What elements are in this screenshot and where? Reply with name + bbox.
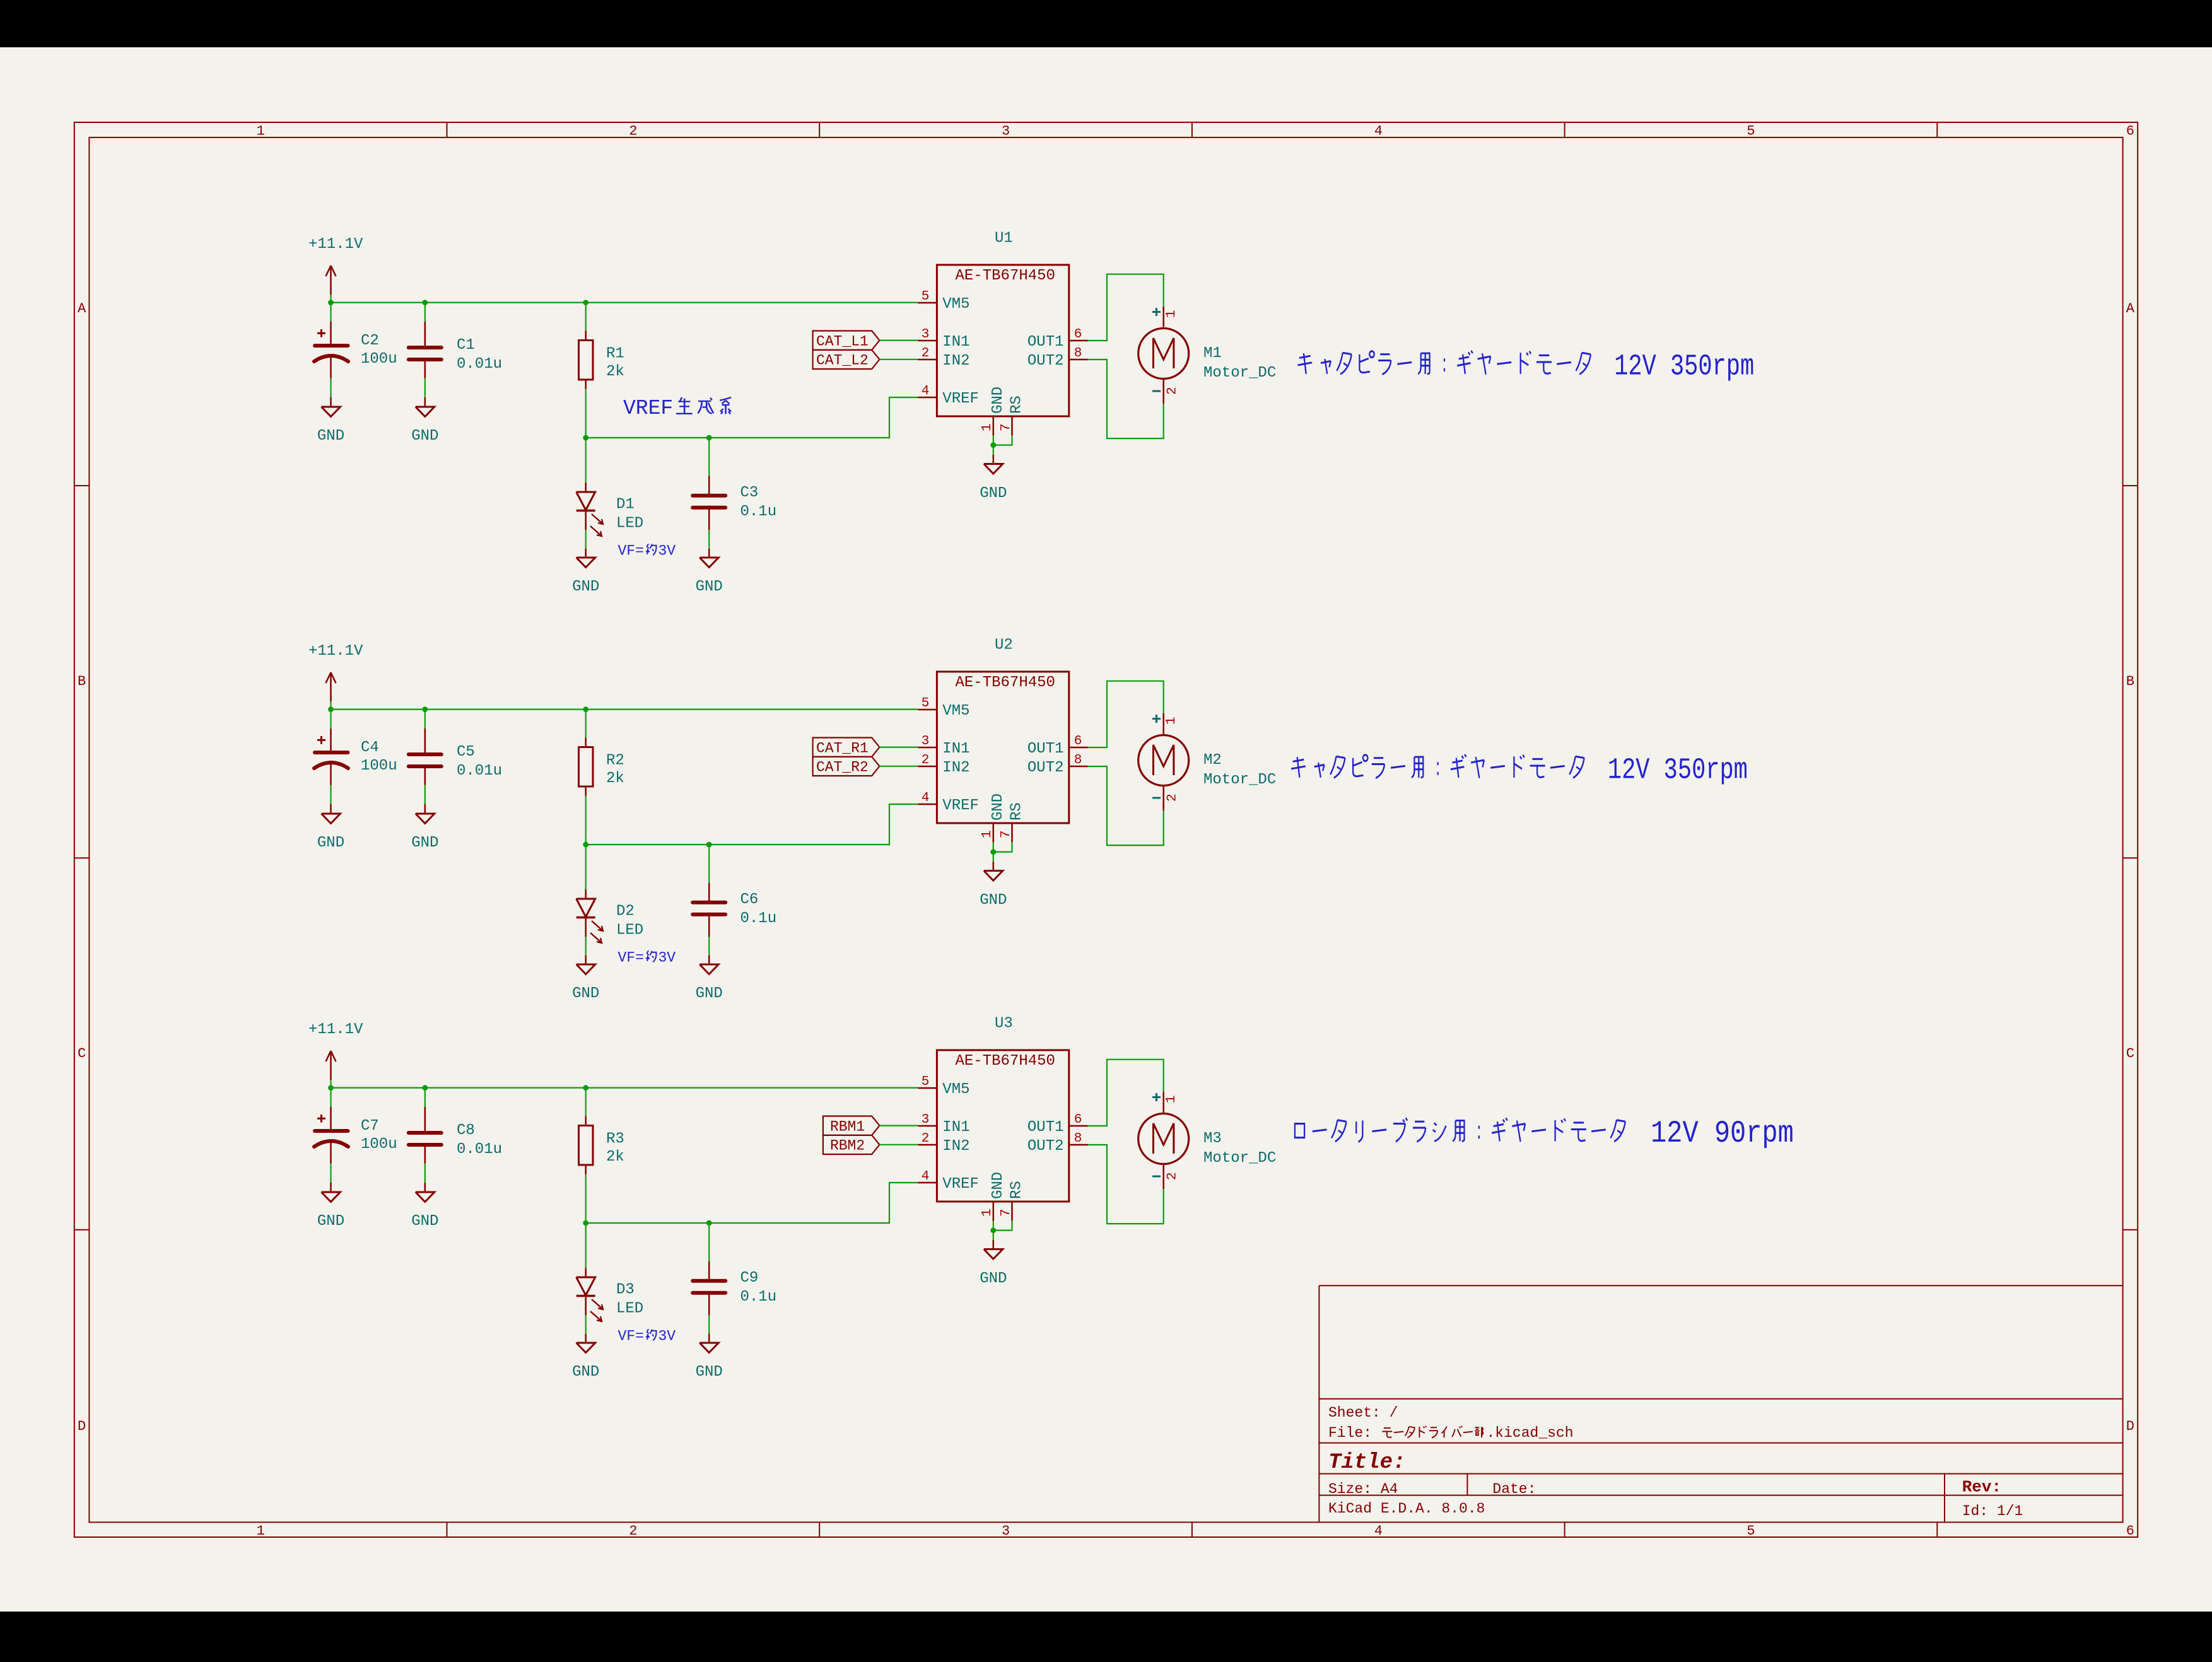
svg-text:D1: D1	[616, 496, 635, 513]
capacitor C5 (0.01u)	[424, 710, 426, 729]
svg-text:RBM2: RBM2	[830, 1138, 865, 1154]
svg-text:C4: C4	[361, 739, 379, 756]
svg-text:4: 4	[922, 791, 930, 805]
resistor R2 (2k)	[585, 710, 587, 738]
power flag +11.1V (PWR3)	[330, 1051, 332, 1080]
svg-text:GND: GND	[696, 985, 723, 1002]
svg-text:2k: 2k	[606, 363, 624, 380]
svg-text:3V: 3V	[658, 950, 676, 966]
svg-text:VM5: VM5	[942, 296, 969, 313]
svg-text:1: 1	[1164, 717, 1179, 725]
power flag +11.1V (PWR1)	[330, 266, 332, 295]
pin 2 - of M1	[1152, 390, 1161, 392]
motor M2 Motor_DC	[1162, 713, 1164, 735]
capacitor C9 (0.1u)	[708, 1223, 710, 1261]
svg-text:IN1: IN1	[942, 740, 969, 758]
wire resistor to LED	[585, 1174, 587, 1268]
pin 7 RS of U2	[1011, 823, 1013, 843]
wire U1 GND net	[993, 436, 994, 455]
pin 2 IN2 of U1	[918, 359, 937, 361]
pin 3 IN1 of U2	[918, 747, 937, 749]
hierarchical label CAT_L1	[813, 331, 880, 350]
pin 4 VREF of U2	[918, 804, 937, 805]
svg-text:VF=: VF=	[618, 1328, 644, 1345]
svg-text:.kicad_sch: .kicad_sch	[1487, 1425, 1574, 1441]
pin 1 + of M2	[1152, 718, 1161, 720]
svg-text:File:: File:	[1328, 1425, 1381, 1441]
hierarchical label CAT_L2	[813, 350, 880, 369]
svg-text:GND: GND	[980, 485, 1007, 502]
svg-text:2: 2	[922, 1132, 930, 1146]
svg-text:IN1: IN1	[942, 1119, 969, 1136]
pin 1 GND of U2	[993, 823, 995, 843]
svg-text:5: 5	[922, 290, 930, 304]
svg-text:6: 6	[1074, 327, 1082, 342]
pin 1 + of M1	[1152, 311, 1161, 313]
svg-text:A: A	[2126, 301, 2135, 317]
svg-text:100u: 100u	[361, 758, 397, 775]
capacitor C7 (100u polarized)	[330, 1088, 331, 1107]
wire OUT2 to motor -	[1088, 766, 1164, 845]
svg-text:0.01u: 0.01u	[457, 763, 502, 780]
junction at power flag	[328, 300, 334, 305]
svg-text:GND: GND	[990, 387, 1007, 414]
ground below C8	[424, 1183, 426, 1192]
wire power rail	[331, 708, 918, 710]
svg-text:RS: RS	[1009, 395, 1026, 414]
svg-text:3V: 3V	[658, 543, 676, 559]
svg-text:OUT2: OUT2	[1027, 759, 1064, 776]
svg-text:+11.1V: +11.1V	[308, 236, 363, 253]
svg-text:R3: R3	[606, 1131, 624, 1148]
svg-text:GND: GND	[572, 578, 599, 595]
svg-text:1: 1	[1164, 1095, 1179, 1103]
resistor R3 (2k)	[585, 1088, 587, 1116]
ground below C7	[330, 1183, 332, 1192]
svg-text:B: B	[2126, 674, 2134, 689]
svg-text:100u: 100u	[361, 1136, 397, 1153]
svg-text:7: 7	[999, 423, 1014, 431]
svg-text:Id: 1/1: Id: 1/1	[1962, 1503, 2023, 1519]
motor M1 Motor_DC	[1162, 307, 1164, 329]
svg-text:C3: C3	[740, 484, 759, 501]
svg-text:0.01u: 0.01u	[457, 356, 502, 373]
LED D2 arrows	[592, 921, 602, 930]
IC U1 AE-TB67H450	[937, 265, 1068, 416]
svg-text:C8: C8	[457, 1122, 475, 1139]
svg-text:2: 2	[1166, 1172, 1180, 1180]
svg-text:U1: U1	[995, 230, 1013, 247]
svg-text:0.1u: 0.1u	[740, 910, 777, 927]
svg-text:2: 2	[629, 1523, 637, 1539]
svg-text:GND: GND	[980, 892, 1007, 909]
wire OUT2 to motor -	[1088, 1145, 1164, 1224]
svg-text:7: 7	[999, 830, 1014, 838]
svg-text:D2: D2	[616, 903, 635, 920]
wire RBM2 to IN2	[879, 1144, 918, 1145]
junction VREF tap	[583, 435, 588, 441]
svg-text:GND: GND	[572, 1364, 599, 1381]
capacitor C1 (0.01u)	[424, 303, 426, 322]
svg-text:VREF: VREF	[623, 397, 673, 420]
wire RBM1 to IN1	[879, 1125, 918, 1126]
svg-text:D3: D3	[616, 1281, 635, 1298]
svg-text:M1: M1	[1203, 345, 1222, 362]
svg-text:D: D	[78, 1419, 86, 1434]
pin 7 RS of U3	[1011, 1202, 1013, 1221]
svg-text:5: 5	[922, 696, 930, 711]
pin 6 OUT1 of U2	[1069, 747, 1088, 749]
svg-text:4: 4	[922, 1169, 930, 1184]
svg-text:VREF: VREF	[942, 1176, 979, 1193]
hierarchical label CAT_R2	[813, 757, 880, 776]
wire CAT_R1 to IN1	[879, 746, 918, 747]
capacitor C3 (0.1u)	[708, 438, 710, 476]
annotation row2: キャタピラー用：ギヤードモータ 12V 350rpm	[1291, 757, 1306, 778]
pin 4 VREF of U3	[918, 1182, 937, 1184]
svg-text:KiCad E.D.A. 8.0.8: KiCad E.D.A. 8.0.8	[1328, 1501, 1485, 1517]
svg-text:VREF: VREF	[942, 797, 979, 814]
svg-text:GND: GND	[696, 1364, 723, 1381]
frame row ticks	[74, 485, 90, 486]
svg-text:R1: R1	[606, 346, 624, 363]
svg-text:6: 6	[1074, 734, 1082, 749]
pin 8 OUT2 of U2	[1069, 766, 1088, 768]
svg-text:1: 1	[1164, 310, 1179, 318]
svg-text:GND: GND	[317, 428, 344, 445]
capacitor C6 (0.1u)	[708, 845, 710, 883]
svg-text:Sheet: /: Sheet: /	[1328, 1405, 1398, 1421]
svg-text:100u: 100u	[361, 351, 397, 368]
svg-text:OUT2: OUT2	[1027, 1138, 1064, 1155]
resistor R1 (2k)	[585, 303, 587, 331]
svg-text:R2: R2	[606, 752, 624, 770]
IC U2 AE-TB67H450	[937, 672, 1068, 823]
svg-text:IN2: IN2	[942, 353, 969, 370]
svg-text:Date:: Date:	[1492, 1481, 1536, 1497]
ground below D3	[585, 1334, 587, 1343]
svg-text:GND: GND	[980, 1270, 1007, 1287]
svg-text:CAT_R1: CAT_R1	[816, 740, 869, 757]
pin 8 OUT2 of U3	[1069, 1144, 1088, 1146]
wire OUT2 to motor -	[1088, 360, 1164, 438]
hierarchical label CAT_R1	[813, 738, 880, 757]
ground below U3	[993, 1240, 995, 1249]
svg-text:OUT2: OUT2	[1027, 353, 1064, 370]
svg-text:Rev:: Rev:	[1962, 1478, 2001, 1497]
svg-text:+11.1V: +11.1V	[308, 1021, 363, 1038]
svg-text:C9: C9	[740, 1270, 759, 1287]
svg-text:IN2: IN2	[942, 1138, 969, 1155]
wire OUT1 to motor +	[1088, 681, 1164, 747]
svg-text:2: 2	[922, 346, 930, 361]
ground below D1	[585, 549, 587, 558]
svg-text:6: 6	[2126, 1523, 2134, 1539]
LED D3	[585, 1268, 587, 1277]
svg-text:6: 6	[1074, 1113, 1082, 1127]
svg-text:VF=: VF=	[618, 543, 644, 559]
svg-text:Title:: Title:	[1328, 1451, 1405, 1475]
pin 1 GND of U3	[993, 1202, 995, 1221]
svg-text:C6: C6	[740, 891, 759, 908]
svg-text:2: 2	[629, 124, 637, 139]
wire CAT_R2 to IN2	[879, 766, 918, 767]
drawing frame outer border	[74, 122, 2138, 1537]
wire CAT_L2 to IN2	[879, 359, 918, 360]
pin 4 VREF of U1	[918, 397, 937, 399]
svg-text:U3: U3	[995, 1015, 1013, 1033]
svg-text:A: A	[78, 301, 86, 317]
capacitor C8 (0.01u)	[424, 1088, 426, 1107]
wire power rail	[331, 302, 918, 303]
junction VREF tap	[583, 842, 588, 848]
svg-text:Motor_DC: Motor_DC	[1203, 771, 1276, 788]
ground below C6	[708, 956, 710, 964]
svg-text:C2: C2	[361, 332, 379, 349]
svg-text:M3: M3	[1203, 1130, 1222, 1147]
svg-text:3: 3	[922, 1113, 930, 1127]
pin 2 - of M2	[1152, 797, 1161, 799]
ground below C2	[330, 397, 332, 407]
title block	[1318, 1285, 1320, 1522]
svg-text:CAT_L1: CAT_L1	[816, 334, 869, 350]
svg-text:Motor_DC: Motor_DC	[1203, 365, 1276, 382]
svg-text:0.1u: 0.1u	[740, 1289, 777, 1306]
LED D2	[585, 889, 587, 899]
wire power flag stub	[330, 295, 331, 303]
svg-text:U2: U2	[995, 637, 1013, 654]
junction at power flag	[328, 1085, 334, 1091]
svg-text:1: 1	[980, 1208, 995, 1217]
svg-text:B: B	[78, 674, 86, 689]
svg-text:1: 1	[257, 124, 265, 139]
svg-text:C7: C7	[361, 1118, 379, 1135]
svg-text:LED: LED	[616, 1300, 643, 1317]
svg-text:VF=: VF=	[618, 950, 644, 966]
svg-text:LED: LED	[616, 922, 643, 939]
svg-text:8: 8	[1074, 346, 1082, 361]
svg-text:CAT_R2: CAT_R2	[816, 759, 869, 776]
motor M3 Motor_DC	[1162, 1092, 1164, 1114]
annotation row3: ロータリーブラシ用：ギヤードモータ 12V 90rpm	[1295, 1123, 1304, 1137]
pin 3 IN1 of U3	[918, 1125, 937, 1127]
svg-text:4: 4	[1374, 124, 1383, 139]
svg-text:0.1u: 0.1u	[740, 503, 777, 520]
svg-text:VM5: VM5	[942, 1081, 969, 1098]
pin 5 VM5 of U3	[918, 1087, 937, 1089]
ground below C5	[424, 804, 426, 814]
LED D1 arrows	[592, 514, 602, 524]
IC U3 AE-TB67H450	[937, 1050, 1068, 1202]
svg-text:3: 3	[1002, 1523, 1010, 1539]
wire power rail	[331, 1087, 918, 1088]
ground below U1	[993, 455, 995, 464]
svg-text:Size: A4: Size: A4	[1328, 1481, 1398, 1497]
pin 8 OUT2 of U1	[1069, 359, 1088, 361]
pin 6 OUT1 of U1	[1069, 340, 1088, 342]
svg-text:4: 4	[1374, 1523, 1383, 1539]
svg-text:RBM1: RBM1	[830, 1119, 865, 1135]
svg-text:5: 5	[922, 1075, 930, 1089]
svg-text:GND: GND	[317, 834, 344, 851]
svg-text:LED: LED	[616, 515, 643, 532]
svg-text:2k: 2k	[606, 770, 624, 787]
wire OUT1 to motor +	[1088, 274, 1164, 341]
pin 2 IN2 of U2	[918, 766, 937, 768]
svg-text:GND: GND	[696, 578, 723, 595]
svg-text:2k: 2k	[606, 1149, 624, 1166]
pin 2 IN2 of U3	[918, 1144, 937, 1146]
pin 1 + of M3	[1152, 1096, 1161, 1098]
wire CAT_L1 to IN1	[879, 339, 918, 341]
svg-text:2: 2	[922, 753, 930, 768]
svg-text:IN1: IN1	[942, 334, 969, 351]
svg-text:OUT1: OUT1	[1027, 334, 1064, 351]
capacitor C4 (100u polarized)	[330, 710, 331, 729]
junction at power flag	[328, 706, 334, 712]
wire power flag stub	[330, 701, 331, 710]
ground below C1	[424, 397, 426, 407]
pin 5 VM5 of U2	[918, 709, 937, 711]
svg-text:0.01u: 0.01u	[457, 1141, 502, 1158]
svg-text:8: 8	[1074, 1132, 1082, 1146]
svg-text:VREF: VREF	[942, 390, 979, 407]
svg-text:12V 350rpm: 12V 350rpm	[1594, 753, 1748, 787]
wire power flag stub	[330, 1080, 331, 1088]
frame column ticks	[447, 122, 448, 138]
pin 7 RS of U1	[1011, 416, 1013, 436]
svg-text:5: 5	[1747, 1523, 1755, 1539]
capacitor C2 (100u polarized)	[330, 303, 331, 322]
hierarchical label RBM2	[823, 1135, 880, 1154]
svg-text:1: 1	[980, 423, 995, 431]
svg-text:CAT_L2: CAT_L2	[816, 353, 869, 369]
pin 1 GND of U1	[993, 416, 995, 436]
svg-text:C5: C5	[457, 744, 475, 761]
svg-text:3: 3	[922, 734, 930, 749]
svg-text:IN2: IN2	[942, 759, 969, 776]
drawing frame inner border	[89, 138, 2122, 1523]
power flag +11.1V (PWR2)	[330, 672, 332, 701]
LED D3 arrows	[592, 1299, 602, 1309]
svg-text:3V: 3V	[658, 1328, 676, 1345]
svg-text:GND: GND	[990, 1172, 1007, 1199]
ground below C3	[708, 549, 710, 558]
svg-text:6: 6	[2126, 124, 2134, 139]
pin 3 IN1 of U1	[918, 340, 937, 342]
svg-text:3: 3	[1002, 124, 1010, 139]
svg-text:Motor_DC: Motor_DC	[1203, 1150, 1276, 1167]
svg-text:C: C	[78, 1046, 86, 1062]
wire U2 GND net	[993, 843, 994, 862]
pin 6 OUT1 of U3	[1069, 1125, 1088, 1127]
junction VREF tap	[583, 1220, 588, 1226]
wire OUT1 to motor +	[1088, 1060, 1164, 1126]
svg-text:12V 350rpm: 12V 350rpm	[1600, 349, 1754, 383]
pin 2 - of M3	[1152, 1176, 1161, 1178]
svg-text:GND: GND	[317, 1213, 344, 1230]
svg-text:+11.1V: +11.1V	[308, 643, 363, 660]
svg-text:AE-TB67H450: AE-TB67H450	[956, 674, 1055, 691]
hierarchical label RBM1	[823, 1116, 880, 1135]
svg-text:2: 2	[1166, 793, 1180, 802]
svg-text:OUT1: OUT1	[1027, 740, 1064, 758]
svg-text:GND: GND	[411, 428, 438, 445]
svg-text:C: C	[2126, 1046, 2134, 1062]
svg-text:1: 1	[257, 1523, 265, 1539]
svg-text:D: D	[2126, 1419, 2134, 1434]
svg-text:GND: GND	[411, 1213, 438, 1230]
wire VREF net	[586, 804, 918, 845]
svg-text:1: 1	[980, 830, 995, 838]
wire resistor to LED	[585, 796, 587, 889]
svg-text:VM5: VM5	[942, 703, 969, 720]
LED D1	[585, 483, 587, 492]
wire VREF net	[586, 397, 918, 438]
wire VREF net	[586, 1183, 918, 1223]
ground below D2	[585, 956, 587, 964]
svg-text:3: 3	[922, 327, 930, 342]
ground below C4	[330, 804, 332, 814]
wire U3 GND net	[993, 1221, 994, 1240]
svg-text:GND: GND	[990, 793, 1007, 821]
ground below U2	[993, 862, 995, 871]
annotation row1: キャタピラー用：ギヤードモータ 12V 350rpm	[1297, 353, 1312, 374]
svg-text:AE-TB67H450: AE-TB67H450	[956, 1053, 1055, 1070]
svg-text:2: 2	[1166, 387, 1180, 395]
svg-text:OUT1: OUT1	[1027, 1119, 1064, 1136]
wire resistor to LED	[585, 389, 587, 483]
svg-text:4: 4	[922, 384, 930, 399]
svg-text:5: 5	[1747, 124, 1755, 139]
svg-text:AE-TB67H450: AE-TB67H450	[956, 267, 1055, 284]
svg-text:GND: GND	[572, 985, 599, 1002]
svg-text:RS: RS	[1009, 802, 1026, 821]
pin 5 VM5 of U1	[918, 302, 937, 304]
ground below C9	[708, 1334, 710, 1343]
svg-text:8: 8	[1074, 753, 1082, 768]
svg-text:M2: M2	[1203, 752, 1222, 769]
svg-text:GND: GND	[411, 834, 438, 851]
svg-text:7: 7	[999, 1208, 1014, 1217]
svg-text:C1: C1	[457, 337, 475, 354]
svg-text:12V 90rpm: 12V 90rpm	[1635, 1116, 1794, 1151]
svg-text:RS: RS	[1009, 1181, 1026, 1199]
